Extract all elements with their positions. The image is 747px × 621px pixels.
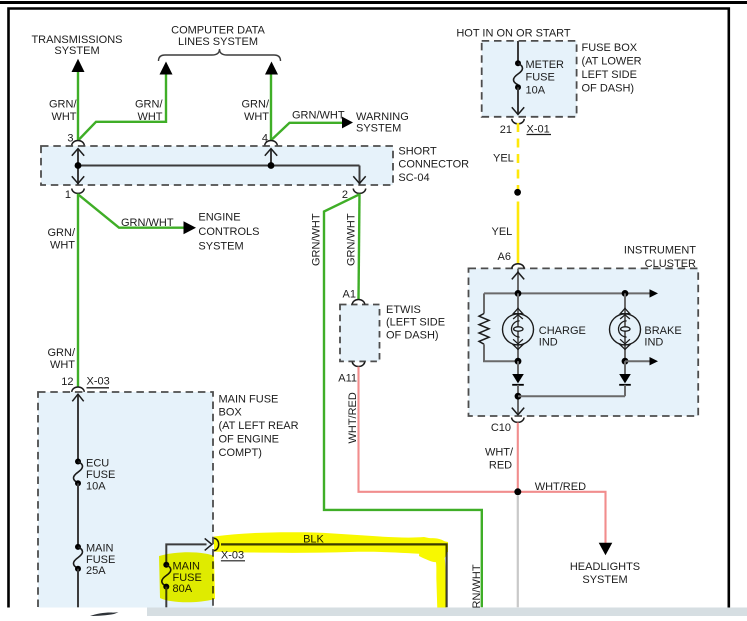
label TRANSMISSIONS SYSTEM <box>31 34 122 57</box>
svg-text:GRN/: GRN/ <box>48 347 76 359</box>
svg-text:GRN/: GRN/ <box>49 98 77 110</box>
svg-text:OF DASH): OF DASH) <box>582 82 635 94</box>
arrow to transmissions system <box>72 59 85 72</box>
svg-text:X-01: X-01 <box>527 124 550 136</box>
svg-text:FUSE: FUSE <box>86 469 115 481</box>
lamp CHARGE IND <box>503 293 534 361</box>
arrowhead up at pin 12 <box>72 394 83 401</box>
brake bottom branch wire <box>625 360 650 362</box>
svg-text:ECU: ECU <box>86 457 109 469</box>
svg-text:(AT LOWER: (AT LOWER <box>582 56 642 68</box>
label CHARGE IND <box>539 325 586 349</box>
svg-text:GRN/: GRN/ <box>242 98 270 110</box>
svg-text:GRN/WHT: GRN/WHT <box>121 217 174 229</box>
junction dot charge top <box>515 290 522 297</box>
wire GRN/WHT pin4 to computer data <box>270 75 272 141</box>
svg-text:COMPT): COMPT) <box>219 447 262 459</box>
svg-text:SYSTEM: SYSTEM <box>582 574 627 586</box>
label FUSE BOX (AT LOWER LEFT SIDE OF DASH) <box>582 42 642 94</box>
X-03 right label underline <box>221 560 245 562</box>
arrow to computer data lines (left) <box>160 62 173 75</box>
fuse MAIN FUSE 25A <box>74 544 83 572</box>
svg-text:ENGINE: ENGINE <box>198 211 240 223</box>
label MAIN FUSE 80A <box>173 561 202 595</box>
arrowhead right at X-03 exit <box>205 538 212 550</box>
highlighter stroke over BLK wire <box>159 532 448 616</box>
svg-text:OF DASH): OF DASH) <box>386 329 439 341</box>
main fuse box internal wire middle <box>77 483 79 546</box>
svg-text:A1: A1 <box>343 288 356 300</box>
pin 2 connector arc <box>353 189 365 194</box>
svg-text:LEFT SIDE: LEFT SIDE <box>582 69 637 81</box>
lamp BRAKE IND <box>610 293 641 361</box>
main fuse box <box>38 392 213 621</box>
wire GRN/WHT pin2 left branch down-around <box>324 194 482 607</box>
arrow to engine controls system <box>184 221 197 234</box>
SC-04 internal wire pin2 <box>359 166 361 185</box>
svg-text:FUSE: FUSE <box>86 554 115 566</box>
label MAIN FUSE 25A <box>86 543 115 577</box>
svg-text:12: 12 <box>61 376 73 388</box>
svg-text:C10: C10 <box>491 422 511 434</box>
wire charge to diode <box>517 361 519 374</box>
cluster bottom cross wire <box>518 395 625 397</box>
svg-text:METER: METER <box>526 59 565 71</box>
svg-text:YEL: YEL <box>493 152 514 164</box>
resistor <box>479 314 489 345</box>
diode charge <box>512 374 524 385</box>
label COMPUTER DATA LINES SYSTEM <box>171 25 265 49</box>
svg-text:WARNING: WARNING <box>356 111 409 123</box>
svg-text:SYSTEM: SYSTEM <box>198 240 243 252</box>
label ECU FUSE 10A <box>86 457 115 492</box>
svg-text:INSTRUMENT: INSTRUMENT <box>624 245 696 257</box>
svg-text:21: 21 <box>500 124 512 136</box>
fuse box (top right) <box>482 41 577 117</box>
svg-text:WHT/: WHT/ <box>485 447 514 459</box>
wire YEL solid lower <box>517 202 520 265</box>
pin C10 connector arc <box>512 418 524 423</box>
junction dot brake bottom <box>622 358 629 365</box>
fuse METER FUSE 10A <box>514 60 523 90</box>
main fuse box internal wire bottom <box>77 569 79 608</box>
wire WHT/RED from C10 <box>517 423 519 492</box>
svg-text:HOT IN ON OR START: HOT IN ON OR START <box>456 27 571 39</box>
svg-text:(LEFT SIDE: (LEFT SIDE <box>386 316 445 328</box>
svg-text:TRANSMISSIONS: TRANSMISSIONS <box>31 34 122 46</box>
fuse box internal wire bottom <box>517 87 519 114</box>
junction dot charge bottom <box>515 358 522 365</box>
arrowhead up at A6 entry <box>512 272 524 279</box>
SC-04 internal bus wire <box>78 165 360 167</box>
svg-text:WHT: WHT <box>50 239 75 251</box>
svg-text:WHT/RED: WHT/RED <box>347 392 359 443</box>
pin A6 connector arc <box>512 264 524 269</box>
svg-text:1: 1 <box>65 189 71 201</box>
label SHORT CONNECTOR SC-04 <box>398 145 469 184</box>
svg-text:MAIN: MAIN <box>86 543 114 555</box>
SC-04 internal wire pin3 <box>77 149 79 185</box>
label BRAKE IND <box>644 325 681 349</box>
bottom white strip <box>0 608 147 617</box>
short connector SC-04 box <box>41 146 393 185</box>
svg-text:ETWIS: ETWIS <box>386 304 421 316</box>
wire GRN/WHT pin3 branch to computer data <box>79 75 167 141</box>
wire GRN/WHT pin2 to ETWIS A1 <box>359 194 360 300</box>
arrow right on top bus <box>650 289 659 297</box>
fuse MAIN FUSE 80A <box>162 562 171 590</box>
wire WHT/RED to headlights <box>518 492 606 544</box>
svg-text:10A: 10A <box>86 480 106 492</box>
wire GRN/WHT pin4 branch to warning system <box>271 123 342 140</box>
cluster top bus wire <box>484 292 650 294</box>
bottom band <box>0 608 747 617</box>
pin 3 connector arc <box>72 141 84 146</box>
connector X-01 arc <box>512 119 524 124</box>
X-03 label underline <box>87 387 110 389</box>
svg-text:A6: A6 <box>498 251 511 263</box>
arrowhead down at C10 exit <box>512 408 524 415</box>
junction dot node SC-04 right <box>268 162 275 169</box>
label WHT/ RED <box>485 447 514 472</box>
svg-text:10A: 10A <box>526 85 546 97</box>
arrow right on brake branch <box>650 357 659 365</box>
main fuse box internal wire top <box>77 394 79 461</box>
connector X-03 right arc <box>214 538 219 550</box>
arrowhead up at pin 4 <box>265 149 277 156</box>
label GRN/WHT (wire 4) <box>242 98 270 123</box>
svg-text:CONNECTOR: CONNECTOR <box>398 159 469 171</box>
label GRN/WHT (left wire lower) <box>48 347 76 371</box>
cluster wire A6 entry <box>517 269 519 294</box>
svg-text:SYSTEM: SYSTEM <box>356 122 401 134</box>
svg-text:WHT: WHT <box>137 111 162 123</box>
fuse ECU FUSE 10A <box>74 459 83 487</box>
ETWIS box <box>340 305 380 362</box>
svg-text:WHT: WHT <box>50 359 75 371</box>
wire YEL dashed upper <box>517 123 520 196</box>
svg-text:(AT LEFT REAR: (AT LEFT REAR <box>219 420 299 432</box>
junction dot brake top <box>622 290 629 297</box>
wire brake to diode <box>624 361 626 374</box>
svg-text:CONTROLS: CONTROLS <box>198 226 259 238</box>
wire BLK <box>221 544 447 607</box>
arrowhead down at X-01 <box>512 107 524 114</box>
main fuse 80A wire bottom <box>165 587 167 608</box>
svg-text:FUSE: FUSE <box>526 72 555 84</box>
svg-text:FUSE BOX: FUSE BOX <box>582 42 638 54</box>
wire diode to bottom node <box>517 385 519 415</box>
fuse box internal wire top <box>517 41 519 63</box>
arrowhead down at pin 1 <box>72 176 84 183</box>
brace under computer data lines <box>159 49 281 61</box>
svg-text:WHT: WHT <box>244 111 269 123</box>
wire GRN/WHT pin1 down to X-03 <box>77 194 79 388</box>
svg-text:CLUSTER: CLUSTER <box>645 258 696 270</box>
junction dot WHT/RED <box>514 488 521 495</box>
svg-text:WHT: WHT <box>51 111 76 123</box>
svg-text:CHARGE: CHARGE <box>539 325 586 337</box>
label INSTRUMENT CLUSTER <box>624 245 696 270</box>
pin A1 connector arc <box>352 300 364 305</box>
svg-text:RED: RED <box>489 460 512 472</box>
wire brake diode down <box>624 385 626 396</box>
svg-text:OF ENGINE: OF ENGINE <box>219 434 280 446</box>
arrow to computer data lines (right) <box>265 62 278 75</box>
svg-text:BOX: BOX <box>219 407 243 419</box>
pin 1 connector arc <box>72 189 84 194</box>
arrow to headlights system <box>599 543 613 556</box>
resistor branch wire upper <box>483 293 485 313</box>
svg-text:A11: A11 <box>338 373 357 385</box>
label GRN/WHT (left wire upper) <box>48 227 76 251</box>
arrowhead up at pin 3 <box>72 149 84 156</box>
svg-text:SC-04: SC-04 <box>398 172 429 184</box>
label ENGINE CONTROLS SYSTEM <box>198 211 259 252</box>
svg-text:GRN/: GRN/ <box>135 98 163 110</box>
svg-text:GRN/WHT: GRN/WHT <box>346 213 358 266</box>
label ETWIS (LEFT SIDE OF DASH) <box>386 304 445 341</box>
junction dot node SC-04 left <box>75 162 82 169</box>
label METER FUSE 10A <box>526 59 565 97</box>
svg-text:MAIN FUSE: MAIN FUSE <box>219 393 279 405</box>
wire GRN/WHT pin3 to transmissions <box>77 72 79 141</box>
svg-text:GRN/: GRN/ <box>48 227 76 239</box>
svg-text:IND: IND <box>644 336 663 348</box>
diode brake <box>619 374 631 385</box>
svg-text:GRN/WHT: GRN/WHT <box>292 109 345 121</box>
label GRN/WHT (wire 3 branch) <box>135 98 163 123</box>
top black bar <box>0 1 747 4</box>
svg-text:SHORT: SHORT <box>398 145 437 157</box>
svg-text:IND: IND <box>539 336 558 348</box>
pin 4 connector arc <box>265 140 277 145</box>
pin 12 connector arc <box>72 387 84 392</box>
wire GRN/WHT pin1 branch to engine controls <box>78 194 184 227</box>
svg-text:LINES SYSTEM: LINES SYSTEM <box>178 36 258 48</box>
svg-text:GRN/WHT: GRN/WHT <box>311 213 323 266</box>
junction dot bottom node <box>515 393 522 400</box>
X-01 label underline <box>527 134 552 136</box>
splice dot on YEL wire <box>514 189 521 196</box>
label GRN/WHT (wire 3 left) <box>49 98 77 123</box>
resistor branch wire lower <box>484 344 518 361</box>
label HEADLIGHTS SYSTEM <box>570 561 640 586</box>
label WARNING SYSTEM <box>356 111 409 134</box>
arrow to warning system <box>342 117 353 129</box>
svg-text:YEL: YEL <box>492 226 513 238</box>
svg-text:WHT/RED: WHT/RED <box>535 481 586 493</box>
wire WHT/RED from A11 <box>359 367 518 492</box>
svg-text:BRAKE: BRAKE <box>644 325 681 337</box>
SC-04 internal wire pin4 <box>270 149 272 166</box>
main fuse 80A branch wire <box>166 544 206 564</box>
svg-text:HEADLIGHTS: HEADLIGHTS <box>570 561 640 573</box>
black swoosh mark <box>90 612 119 616</box>
svg-text:25A: 25A <box>86 565 106 577</box>
instrument cluster box <box>469 268 699 416</box>
arrowhead down at pin 2 <box>353 176 365 183</box>
pin A11 connector arc <box>352 362 364 367</box>
label MAIN FUSE BOX (AT LEFT REAR OF ENGINE COMPT) <box>219 393 299 459</box>
svg-text:X-03: X-03 <box>87 375 110 387</box>
wire grey continuation down <box>517 496 519 608</box>
svg-text:COMPUTER DATA: COMPUTER DATA <box>171 25 265 37</box>
svg-text:SYSTEM: SYSTEM <box>54 45 99 57</box>
